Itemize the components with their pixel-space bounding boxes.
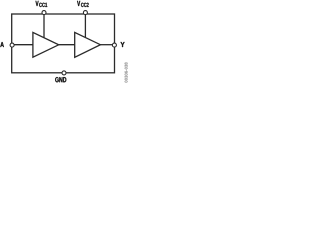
- wire VCC1 supply stub: [43, 13, 45, 39]
- label Y: [121, 42, 125, 47]
- figure code: [125, 62, 128, 82]
- label A: [0, 42, 4, 47]
- wire input A to buffer 1: [12, 44, 34, 46]
- wire VCC2 supply stub: [84, 13, 86, 39]
- wire buffer 2 to output Y: [100, 44, 115, 46]
- label VCC1: [36, 1, 39, 6]
- terminal VCC1: [42, 11, 46, 15]
- terminal output Y: [112, 43, 116, 47]
- buffer amplifier 1: [33, 32, 59, 57]
- terminal VCC2: [83, 11, 87, 15]
- IC outline box: [12, 14, 115, 73]
- buffer amplifier 2: [75, 32, 101, 57]
- label GND: [55, 77, 66, 82]
- wire buffer 1 to buffer 2: [58, 44, 75, 46]
- label VCC2: [77, 1, 80, 6]
- terminal GND: [62, 71, 66, 75]
- terminal input A: [10, 43, 14, 47]
